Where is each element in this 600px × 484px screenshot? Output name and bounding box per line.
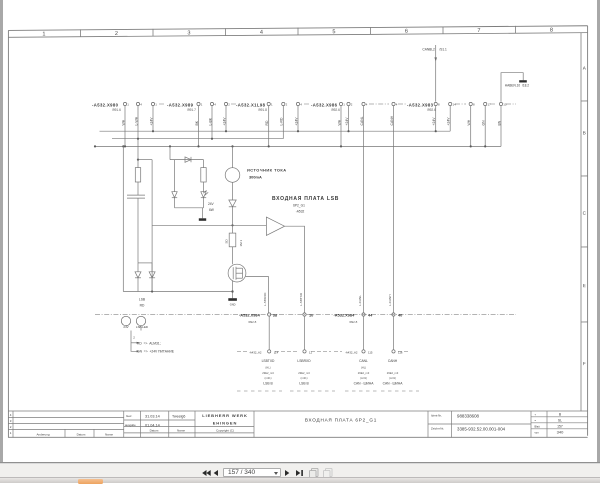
svg-text:-A532.X989: -A532.X989 — [167, 102, 194, 107]
svg-text:CAN - ШИНА: CAN - ШИНА — [383, 381, 404, 385]
svg-text:-A532.X983: -A532.X983 — [407, 102, 434, 107]
svg-text:ВХОДНАЯ ПЛАТА LSB: ВХОДНАЯ ПЛАТА LSB — [272, 196, 339, 202]
svg-text:300mA: 300mA — [249, 175, 262, 180]
svg-text:ИСТОЧНИК ТОКА: ИСТОЧНИК ТОКА — [247, 167, 287, 172]
svg-text:+24V: +24V — [447, 117, 451, 126]
svg-text:L-WH: L-WH — [134, 116, 138, 125]
svg-text:1: 1 — [155, 103, 157, 107]
svg-text:+24V: +24V — [222, 117, 226, 126]
svg-text:RD => ALM31;: RD => ALM31; — [137, 341, 161, 345]
svg-text:C: C — [583, 211, 587, 216]
svg-text:29E2_m3: 29E2_m3 — [298, 371, 310, 375]
svg-text:-A432_A2: -A432_A2 — [249, 350, 262, 354]
svg-text:4: 4 — [396, 103, 398, 107]
svg-text:8: 8 — [438, 103, 440, 107]
svg-text:LIEBHERR WERK: LIEBHERR WERK — [202, 413, 247, 418]
svg-text:988338608: 988338608 — [457, 413, 480, 418]
svg-text:4: 4 — [366, 103, 368, 107]
svg-text:3385-932.52.00.001-004: 3385-932.52.00.001-004 — [457, 427, 506, 432]
svg-text:8: 8 — [550, 27, 553, 33]
svg-text:Name: Name — [177, 428, 185, 432]
svg-text:+24V: +24V — [345, 117, 349, 126]
svg-text:-A432_A2: -A432_A2 — [345, 350, 358, 354]
svg-text:-A532.X984: -A532.X984 — [239, 312, 261, 317]
svg-text:+24V: +24V — [294, 117, 298, 126]
svg-text:4: 4 — [140, 103, 142, 107]
svg-text:L-SBTXD: L-SBTXD — [299, 292, 303, 306]
svg-text:Blatt: Blatt — [535, 424, 540, 428]
svg-text:1: 1 — [127, 103, 129, 107]
svg-text:/992.8: /992.8 — [349, 320, 358, 324]
svg-text:6: 6 — [405, 29, 408, 35]
svg-text:RD: RD — [265, 120, 269, 125]
svg-text:2: 2 — [10, 425, 12, 429]
svg-text:01.04.14: 01.04.14 — [145, 423, 160, 427]
svg-text:114: 114 — [274, 350, 279, 354]
svg-text:17: 17 — [488, 103, 492, 107]
svg-text:Tweelg6: Tweelg6 — [172, 414, 185, 418]
svg-text:CANH: CANH — [388, 359, 398, 363]
svg-text:1: 1 — [10, 431, 12, 435]
svg-text:GN: GN — [482, 120, 486, 126]
svg-text:-A532.X984: -A532.X984 — [334, 312, 356, 317]
svg-text:2: 2 — [286, 103, 288, 107]
svg-text:-A532.X986: -A532.X986 — [311, 102, 338, 107]
svg-text:2: 2 — [115, 31, 118, 37]
svg-text:B: B — [583, 130, 586, 135]
svg-text:L-BK: L-BK — [208, 117, 212, 125]
svg-text:10: 10 — [309, 312, 313, 317]
svg-text:(m31): (m31) — [389, 376, 396, 380]
svg-text:24V: 24V — [208, 202, 215, 206]
svg-text:Name: Name — [105, 432, 113, 436]
svg-text:/992.8: /992.8 — [248, 320, 257, 324]
svg-text:CANL: CANL — [359, 359, 368, 363]
svg-text:6P2_G1: 6P2_G1 — [293, 203, 305, 207]
svg-text:LSBTXD: LSBTXD — [262, 359, 275, 363]
svg-text:WH: WH — [121, 119, 125, 125]
svg-text:SD: SD — [225, 238, 229, 243]
svg-text:40: 40 — [398, 312, 402, 317]
svg-text:+24V: +24V — [149, 117, 153, 126]
svg-text:LSB: LSB — [139, 298, 146, 302]
svg-text:(m31): (m31) — [264, 376, 271, 380]
svg-text:1: 1 — [42, 31, 45, 37]
svg-text:29E2_m3: 29E2_m3 — [262, 371, 274, 375]
svg-text:4: 4 — [260, 30, 263, 36]
svg-text:4: 4 — [214, 103, 216, 107]
svg-text:Ident-Nr,: Ident-Nr, — [431, 414, 442, 418]
svg-text:-A532.X1L98: -A532.X1L98 — [236, 102, 266, 107]
svg-text:(m31): (m31) — [360, 376, 367, 380]
svg-text:B: B — [559, 413, 562, 417]
svg-text:3: 3 — [10, 419, 12, 423]
svg-text:11: 11 — [309, 350, 312, 354]
svg-text:14: 14 — [453, 103, 457, 107]
svg-text:6W: 6W — [209, 208, 214, 212]
svg-text:ВХОДНАЯ ПЛАТА 6P2_G1: ВХОДНАЯ ПЛАТА 6P2_G1 — [305, 417, 377, 422]
svg-text:SL: SL — [558, 419, 562, 423]
svg-text:-A532: -A532 — [296, 210, 305, 214]
svg-text:(HL): (HL) — [265, 365, 270, 369]
svg-text:WH: WH — [337, 119, 341, 125]
svg-text:29E2_m3: 29E2_m3 — [358, 371, 370, 375]
svg-text:2: 2 — [351, 103, 353, 107]
svg-text:340: 340 — [557, 430, 564, 435]
svg-text:/991.7: /991.7 — [187, 108, 196, 112]
svg-text:EHINGEN: EHINGEN — [213, 421, 238, 426]
svg-text:L-RD: L-RD — [280, 117, 284, 125]
svg-text:L-CANH: L-CANH — [388, 294, 392, 306]
svg-text:WH: WH — [467, 119, 471, 125]
svg-text:8: 8 — [473, 103, 475, 107]
svg-text:2: 2 — [133, 335, 135, 339]
svg-text:1: 1 — [271, 103, 273, 107]
svg-text:29E2_m3: 29E2_m3 — [387, 371, 399, 375]
svg-text:LSB-LED: LSB-LED — [136, 325, 148, 329]
svg-text:115: 115 — [368, 350, 373, 354]
svg-text:/991.6: /991.6 — [112, 108, 121, 112]
svg-text:Datum: Datum — [77, 432, 86, 436]
svg-text:CAN - ШИНА: CAN - ШИНА — [354, 381, 375, 385]
svg-text:LSB B: LSB B — [299, 381, 309, 385]
svg-text:1M 1: 1M 1 — [239, 239, 243, 246]
svg-text:7: 7 — [477, 28, 480, 34]
svg-text:4: 4 — [300, 103, 302, 107]
svg-text:Copyright (C): Copyright (C) — [216, 428, 234, 432]
svg-text:RD: RD — [140, 304, 145, 308]
svg-text:+: + — [535, 413, 537, 416]
svg-text:(m31): (m31) — [300, 376, 307, 380]
svg-text:BK: BK — [195, 120, 199, 125]
svg-text:LSB B: LSB B — [263, 381, 273, 385]
svg-text:/S1.1: /S1.1 — [439, 47, 447, 51]
svg-text:5: 5 — [332, 29, 335, 35]
svg-text:31.03.14: 31.03.14 — [145, 414, 160, 418]
svg-text:Datum: Datum — [150, 428, 159, 432]
svg-text:10: 10 — [503, 103, 507, 107]
svg-text:+24V: +24V — [432, 117, 436, 126]
svg-text:L-SBRXD: L-SBRXD — [263, 292, 267, 306]
svg-text:3: 3 — [187, 30, 190, 36]
svg-text:LSBRXD: LSBRXD — [297, 359, 311, 363]
svg-text:L-CANL: L-CANL — [358, 295, 362, 306]
svg-text:GN => +24V ПИТАНИЕ: GN => +24V ПИТАНИЕ — [137, 350, 175, 354]
svg-text:Gez.: Gez. — [126, 414, 133, 418]
svg-text:/992.6: /992.6 — [427, 108, 436, 112]
svg-text:F: F — [583, 361, 586, 366]
svg-text:24V: 24V — [123, 325, 128, 329]
svg-text:2: 2 — [228, 103, 230, 107]
svg-text:1: 1 — [343, 103, 345, 107]
svg-text:A: A — [583, 66, 587, 71]
svg-text:HABEN.10 /18.2: HABEN.10 /18.2 — [505, 84, 530, 88]
svg-text:116: 116 — [398, 350, 403, 354]
svg-text:/991.8: /991.8 — [258, 108, 267, 112]
svg-text:E: E — [583, 283, 586, 288]
svg-text:=: = — [535, 419, 537, 422]
svg-text:/992.6: /992.6 — [331, 108, 340, 112]
svg-text:4: 4 — [10, 413, 12, 417]
svg-text:Аnderung: Аnderung — [36, 432, 49, 436]
svg-text:von: von — [535, 431, 540, 434]
svg-text:157: 157 — [557, 425, 563, 429]
svg-text:1: 1 — [201, 103, 203, 107]
svg-text:(HL): (HL) — [361, 365, 366, 369]
svg-text:Zeichn-Nr,: Zeichn-Nr, — [431, 427, 444, 431]
svg-text:-A532.X980: -A532.X980 — [92, 102, 119, 107]
svg-text:ausgabe: ausgabe — [125, 423, 136, 427]
svg-text:GND: GND — [230, 302, 236, 306]
svg-text:CANBL2: CANBL2 — [422, 47, 435, 51]
